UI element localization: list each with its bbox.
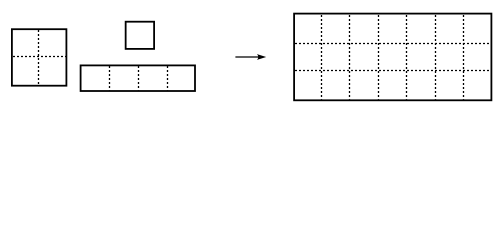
7x3 grid horizontal dashed line 2	[295, 70, 491, 72]
1x4 rectangle outline	[81, 65, 195, 91]
2x2 square outline	[12, 29, 67, 85]
arrow head	[257, 54, 266, 60]
arrow shaft	[235, 56, 260, 58]
2x2 square vertical dashed divider	[38, 30, 40, 85]
7x3 grid vertical dashed line 2	[349, 15, 351, 99]
7x3 grid vertical dashed line 6	[463, 15, 465, 99]
1x4 rectangle dashed divider 2	[138, 66, 140, 90]
7x3 grid vertical dashed line 5	[435, 15, 437, 99]
7x3 grid vertical dashed line 4	[406, 15, 408, 99]
1x4 rectangle dashed divider 1	[109, 66, 111, 90]
2x2 square horizontal dashed divider	[13, 56, 66, 58]
7x3 grid vertical dashed line 3	[378, 15, 380, 99]
1x4 rectangle dashed divider 3	[167, 66, 169, 90]
7x3 grid vertical dashed line 1	[321, 15, 323, 99]
7x3 grid rectangle outline	[294, 14, 491, 101]
7x3 grid horizontal dashed line 1	[295, 43, 491, 45]
1x1 small square outline	[126, 22, 154, 49]
